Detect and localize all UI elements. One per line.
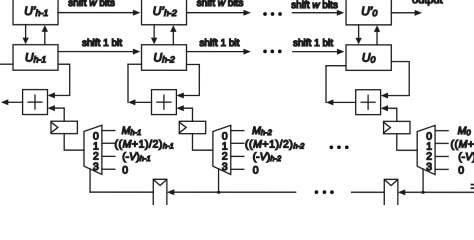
multiplexer stage h-1 [84,125,115,174]
register U0 (lower box) [346,45,391,71]
mux select wire stage h-2 [218,169,220,192]
mux input value labels stage h-2 [245,125,305,177]
wire Uh-2 feedback to adder input A [176,64,199,98]
wire U0 to U'0 (up arrow) [374,25,380,45]
wire arrow into bus register 1 [167,189,296,195]
ellipsis dots shift-1-bit row [263,50,282,54]
bus wire segment right of dots [352,191,385,193]
svg-text:Mh-2: Mh-2 [252,125,273,137]
svg-text:3: 3 [93,162,99,173]
wire register to adder input B [381,105,397,121]
wire U'h-1 to Uh-1 (down arrow) [22,25,28,45]
label shift 1 bit (1) [82,38,122,49]
wire register to adder input B [47,105,64,121]
mux input value labels stage 0 [450,125,474,177]
svg-text:(-V)h-1: (-V)h-1 [122,151,151,163]
wire output from U'0 [391,10,422,16]
svg-text:Uh-1: Uh-1 [25,50,47,64]
mux select wire stage 0 [422,169,424,192]
svg-text:((M+1)/2)h-2: ((M+1)/2)h-2 [245,138,305,150]
svg-text:U’h-1: U’h-1 [24,4,48,18]
label shift w bits (1) [68,0,115,9]
register U'0 (upper box) [346,0,391,25]
register Uh-1 (lower box) [13,45,58,71]
svg-text:shift w bits: shift w bits [197,0,244,9]
svg-text:shift 1 bit: shift 1 bit [82,38,122,49]
svg-text:shift w bits: shift w bits [68,0,115,9]
wire mux output to register stage 0 [397,134,417,151]
wire shift w bits: into U'0 [292,10,344,16]
svg-text:(-V)0: (-V)0 [458,151,474,163]
register U'h-1 (upper box) [13,0,58,25]
svg-text:3: 3 [426,162,432,173]
bus register 1 (vertical, clock triangle) [153,179,167,205]
bus register 2 (vertical, clock triangle) [384,179,398,205]
label output [412,0,443,6]
register U'h-2 (upper box) [142,0,187,25]
wire shift w bits: U'h-1 to U'h-2 [58,10,140,16]
svg-text:output: output [412,0,443,6]
adder (+) stage h-1 [23,90,48,115]
svg-text:(-V)h-2: (-V)h-2 [253,151,282,163]
wire adder output back to Uh-2 [128,64,152,105]
wire mux output to register stage h-2 [192,134,212,151]
adder (+) stage 0 [356,90,381,115]
pipeline register stage h-1 (horizontal, clock triangle) [51,121,77,133]
ellipsis dots middle row [330,145,349,149]
wire adder output back to Uh-1 [0,64,23,105]
junction node (h-2 select on bus) [217,191,220,194]
svg-text:U0: U0 [362,50,376,64]
multiplexer stage h-2 [213,125,244,174]
ellipsis dots bus row [315,190,334,194]
wire U'0 to U0 (down arrow) [355,25,361,45]
wire Uh-1 to U'h-1 (up arrow) [42,25,48,45]
bus wire segment left [90,191,153,193]
svg-text:0: 0 [253,165,259,177]
multiplexer stage 0 [417,125,448,174]
cut-off marks at right edge [471,184,474,189]
svg-text:U’h-2: U’h-2 [153,4,177,18]
label shift 1 bit (3) [293,38,333,49]
svg-text:shift w bits: shift w bits [291,0,338,11]
svg-text:Mh-1: Mh-1 [122,125,142,137]
svg-text:2: 2 [426,151,432,162]
svg-text:2: 2 [222,151,228,162]
pipeline register stage 0 (horizontal, clock triangle) [384,121,410,133]
wire Uh-1 feedback to adder input A [48,64,70,98]
wire Uh-2 to U'h-2 (up arrow) [170,25,176,45]
svg-text:M0: M0 [458,125,472,137]
wire arrow into bus register 2 [398,189,474,195]
svg-text:Uh-2: Uh-2 [153,50,175,64]
wire adder output back to U0 [326,66,356,106]
svg-text:((M+1)/2)0: ((M+1)/2)0 [450,138,474,150]
svg-text:shift 1 bit: shift 1 bit [199,38,239,49]
svg-text:shift 1 bit: shift 1 bit [293,38,333,49]
wire mux output to register stage h-1 [64,134,84,151]
wire register to adder input B [176,105,192,121]
wire shift 1 bit: Uh-2 onward [187,49,251,55]
mux select wire stage h-1 [89,169,91,192]
svg-text:0: 0 [458,165,464,177]
label shift 1 bit (2) [199,38,239,49]
svg-text:U’0: U’0 [361,4,377,18]
wire shift 1 bit: Uh-1 to Uh-2 [58,49,140,55]
wire U0 feedback to adder input A [381,62,410,99]
label shift w bits (2) [197,0,244,9]
register Uh-2 (lower box) [142,45,187,71]
label shift w bits (3) [291,0,338,11]
svg-text:0: 0 [122,164,128,176]
junction node (stage-0 select on bus) [421,191,424,194]
svg-text:2: 2 [93,151,99,162]
mux input value labels stage h-1 [114,125,173,177]
wire shift w bits: U'h-2 onward [187,10,251,16]
wire U'h-2 to Uh-2 (down arrow) [151,25,157,45]
svg-text:((M+1)/2)h-1: ((M+1)/2)h-1 [114,138,173,150]
wire shift 1 bit: into U0 [293,49,345,55]
adder (+) stage h-2 [151,90,176,115]
ellipsis dots top row [263,12,282,16]
svg-text:3: 3 [222,162,228,173]
pipeline register stage h-2 (horizontal, clock triangle) [179,121,205,133]
